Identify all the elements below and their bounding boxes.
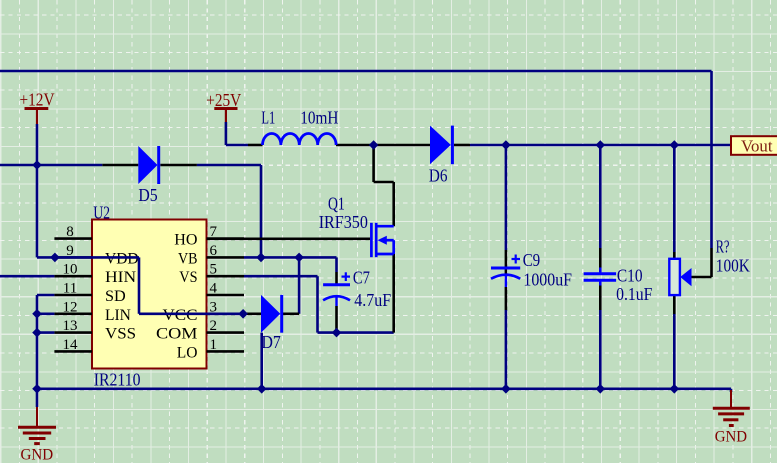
diode D5: [138, 146, 158, 184]
wire SD bus horizontal to pin 11: [37, 294, 54, 297]
node C10 bottom: [596, 384, 606, 394]
wire VDD row into chip: [37, 256, 139, 259]
C7 bottom pin black part: [335, 306, 338, 333]
wire D6 cathode to Vout rail: [470, 144, 731, 147]
svg-text:HIN: HIN: [105, 269, 137, 286]
svg-text:C7: C7: [353, 268, 370, 288]
Q1 source pin down to VS net: [392, 254, 395, 333]
svg-text:4.7uF: 4.7uF: [354, 290, 391, 310]
ground symbol left GND: [18, 389, 56, 463]
svg-text:D6: D6: [429, 166, 448, 186]
svg-text:1000uF: 1000uF: [523, 270, 572, 290]
power port +12V: [20, 90, 55, 125]
wire right vertical from top rail down to pot wiper: [710, 71, 713, 248]
L1 left pin: [248, 144, 263, 147]
diode D6: [430, 126, 452, 165]
wire D7 cathode vertical up to VB row: [298, 257, 301, 313]
node ground rail left: [32, 384, 42, 394]
Vout port: [731, 136, 777, 155]
svg-text:VSS: VSS: [105, 326, 136, 343]
svg-text:14: 14: [63, 337, 79, 353]
MOSFET Q1 IRF350: [371, 223, 393, 257]
svg-text:IRF350: IRF350: [319, 212, 368, 232]
wire +25V corner to L1: [226, 144, 248, 147]
svg-text:Vout: Vout: [741, 137, 773, 156]
svg-text:SD: SD: [105, 288, 126, 305]
node VB D5: [256, 253, 266, 263]
node L1 D6 drain: [369, 140, 379, 150]
svg-text:GND: GND: [21, 447, 54, 463]
wire C9 top lead: [505, 145, 508, 250]
U2 left pin stubs pins 8-14: [54, 239, 92, 352]
svg-text:8: 8: [66, 224, 74, 240]
node VB D7: [294, 253, 304, 263]
svg-text:6: 6: [210, 243, 218, 259]
D7 anode pin: [243, 312, 261, 315]
svg-text:VDD: VDD: [105, 250, 139, 267]
svg-text:4: 4: [210, 281, 218, 297]
svg-text:U2: U2: [93, 202, 110, 222]
D5 anode pin: [102, 164, 138, 167]
svg-text:10: 10: [63, 262, 78, 278]
pot pins black parts: [673, 252, 676, 314]
U2 pin numbers left 8-14: [63, 224, 79, 353]
power port +25V: [206, 90, 241, 122]
D7 cathode pin: [283, 312, 299, 315]
wire top rail from left edge to right side: [0, 70, 712, 73]
U2 pin name labels: [105, 232, 198, 362]
wire C7 top lead upper part: [335, 257, 338, 272]
wire +25V drop: [225, 122, 228, 145]
wire step down to Q1 drain: [374, 145, 394, 226]
wire bus to pin 12: [37, 312, 54, 315]
svg-text:11: 11: [63, 281, 77, 297]
wire C10 bottom lead: [599, 310, 602, 389]
wire C10 top lead: [599, 145, 602, 248]
node VCC D7 anode: [238, 309, 248, 319]
node +12V rail junction: [32, 160, 42, 170]
svg-text:2: 2: [210, 318, 218, 334]
capacitor C9 polarized: [491, 255, 520, 288]
svg-text:COM: COM: [156, 326, 198, 343]
C9 pins black parts: [505, 250, 508, 310]
wire +12V drop to VDD: [36, 124, 39, 257]
wire VS horizontal to MOSFET source: [318, 331, 394, 334]
wire C9 bottom lead: [505, 310, 508, 389]
svg-text:GND: GND: [715, 429, 747, 446]
svg-text:L1: L1: [261, 108, 275, 128]
svg-text:10mH: 10mH: [300, 108, 338, 128]
svg-text:0.1uF: 0.1uF: [616, 284, 652, 304]
wire pot top lead: [673, 145, 676, 252]
wire bottom ground rail: [37, 387, 731, 390]
node VDD wire junction: [50, 253, 60, 263]
svg-text:+12V: +12V: [20, 90, 55, 110]
svg-text:IR2110: IR2110: [94, 369, 141, 389]
node pot bottom: [670, 384, 680, 394]
D6 cathode pin: [454, 144, 470, 147]
svg-text:Q1: Q1: [328, 194, 345, 214]
svg-text:VS: VS: [179, 269, 197, 286]
wire D5 cathode to corner: [197, 164, 261, 167]
wire HIN from left edge to pin 10: [0, 275, 54, 278]
diode D7: [261, 295, 282, 333]
wire +12V rail at D5 anode level from left edge: [0, 164, 102, 167]
svg-text:C10: C10: [617, 266, 643, 286]
wire pot bottom lead: [673, 314, 676, 389]
node ground rail at D7 branch: [257, 384, 267, 394]
svg-text:HO: HO: [174, 232, 197, 249]
svg-text:13: 13: [63, 318, 78, 334]
inductor L1 coil: [263, 133, 337, 145]
svg-text:100K: 100K: [716, 256, 750, 276]
wire VCC row across chip to pin 3: [139, 312, 243, 315]
wire VB row pin 6 to C7: [244, 256, 337, 259]
wire VS vertical down: [316, 276, 319, 332]
capacitor C10: [584, 268, 617, 286]
L1 right pin to D6 anode: [336, 144, 430, 147]
svg-text:1: 1: [210, 337, 218, 353]
svg-text:C9: C9: [523, 250, 541, 270]
C10 pins black parts: [599, 248, 602, 310]
wire bus to pin 13: [37, 331, 54, 334]
node C9 bottom: [501, 384, 511, 394]
svg-text:VCC: VCC: [163, 307, 198, 324]
node C7 bottom: [332, 328, 342, 338]
wire SD/LIN/VSS ground bus vertical: [36, 295, 39, 389]
U2 right pin stubs pins 7-1: [207, 239, 245, 352]
potentiometer R? body: [669, 259, 691, 295]
node C10 top: [596, 140, 606, 150]
Q1 gate wire from pin 7 HO: [207, 238, 371, 241]
pot wiper wire: [692, 248, 712, 277]
svg-text:LIN: LIN: [105, 307, 131, 324]
node C9 top: [501, 140, 511, 150]
svg-text:VB: VB: [178, 250, 198, 267]
node pot top: [670, 140, 680, 150]
D5 cathode pin: [160, 164, 197, 167]
svg-text:D7: D7: [262, 332, 281, 352]
node bus pin12: [32, 309, 42, 319]
svg-text:5: 5: [210, 262, 218, 278]
wire ground rail corner to right GND: [730, 389, 733, 392]
capacitor C7 polarized: [323, 272, 350, 306]
op-amp driver IC U2 IR2110 body: [92, 220, 207, 369]
svg-text:LO: LO: [177, 344, 198, 361]
C7 top pin black part: [335, 272, 338, 285]
wire corner down to VB row: [260, 165, 263, 257]
node bus pin13: [32, 328, 42, 338]
svg-text:12: 12: [63, 299, 78, 315]
U2 pin numbers right 7-1: [210, 224, 218, 353]
wire VS row pin 5: [244, 275, 318, 278]
wire D7 anode corner down to ground rail: [260, 333, 263, 389]
svg-text:R?: R?: [716, 236, 730, 256]
ground symbol right GND: [713, 390, 750, 446]
svg-text:D5: D5: [138, 185, 157, 205]
wire inside chip down to VCC row: [138, 257, 141, 313]
svg-text:+25V: +25V: [206, 90, 241, 110]
